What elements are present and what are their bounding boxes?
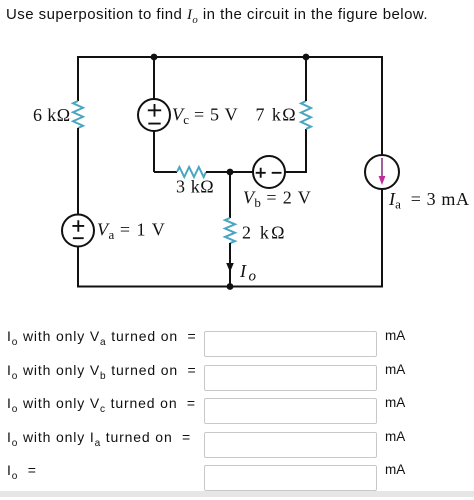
arrow Io [226,250,234,272]
svg-text:Ia = 3 mA: Ia = 3 mA [388,189,470,212]
plus minus Vc [148,104,161,124]
svg-text:Io: Io [239,261,257,285]
source Vc [138,99,170,131]
resistor R 2k [225,218,235,243]
wire right upper [381,56,383,155]
answer row 3 [7,395,196,415]
node dot top Vc [151,54,158,61]
wire right lower [381,189,383,288]
plus minus Va [72,220,84,238]
wire top [78,56,382,58]
node dot top 7k [303,54,310,61]
source Va [62,215,94,247]
wire Vc branch lower [153,131,155,172]
wire left upper [77,56,79,101]
wire middle 2 [206,171,253,173]
svg-text:7 kΩ: 7 kΩ [256,105,297,125]
wire left mid [77,128,79,215]
answer row 4 [7,429,191,449]
svg-text:Va = 1 V: Va = 1 V [97,220,166,243]
node dot bottom [227,283,234,290]
wire 7k upper [305,57,307,101]
arrow Ia [379,158,386,185]
resistor R 3k [177,167,206,177]
svg-text:6 kΩ: 6 kΩ [33,105,70,125]
svg-text:3 kΩ: 3 kΩ [176,177,214,197]
source Ia [365,155,399,189]
wire middle left [154,171,177,173]
svg-text:Vc = 5 V: Vc = 5 V [172,105,238,128]
wire middle right [285,129,306,172]
wire bottom [78,286,382,288]
answer row 5 [7,462,37,482]
source Vb [253,156,285,188]
svg-text:Vb = 2 V: Vb = 2 V [243,188,312,211]
wire 2k lower [229,243,231,287]
wire 2k upper [229,172,231,218]
node dot middle [227,169,234,176]
scrollbar [0,491,474,497]
resistor R 6k [73,101,83,128]
wire left lower [77,247,79,288]
svg-text:2 kΩ: 2 kΩ [242,223,287,243]
plus minus Vb [256,168,282,178]
wire Vc branch upper [153,57,155,99]
answer row 1 [7,328,197,348]
resistor R 7k [301,101,311,129]
answer row 2 [7,362,197,382]
